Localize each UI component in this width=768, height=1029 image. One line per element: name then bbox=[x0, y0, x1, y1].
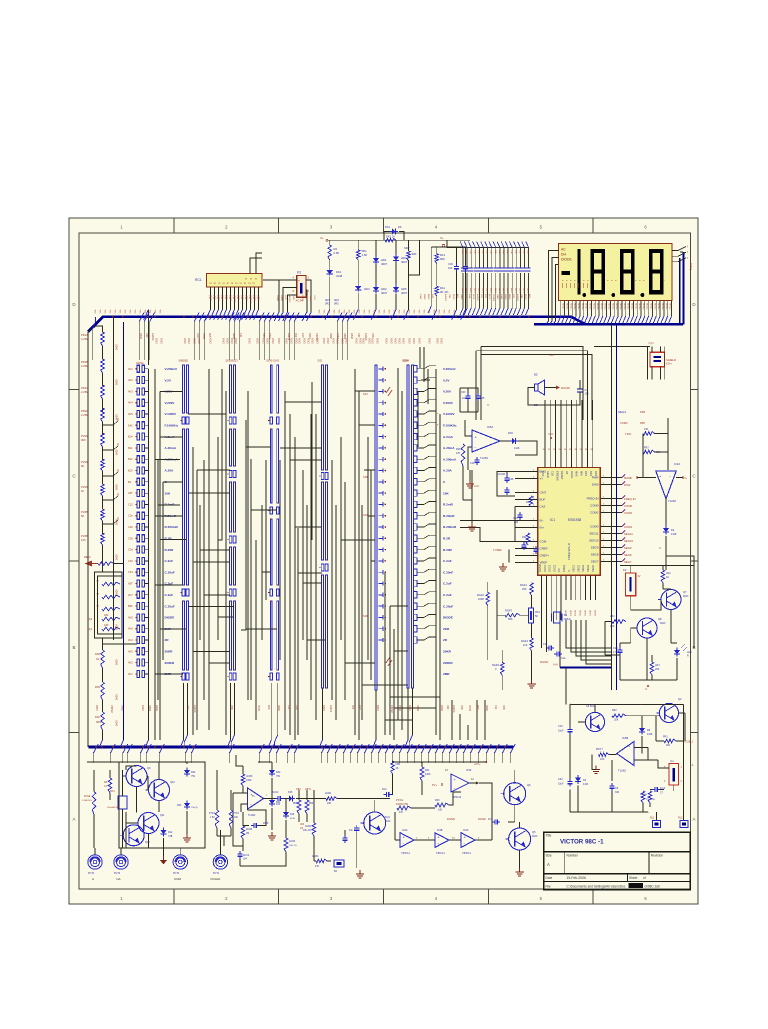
capacitor C7 bbox=[577, 380, 583, 400]
svg-text:S13: S13 bbox=[363, 513, 368, 517]
svg-text:0R1: 0R1 bbox=[325, 303, 330, 306]
label V- q8 bbox=[645, 685, 649, 691]
wire V+ rail bbox=[328, 239, 443, 241]
svg-text:V.20V: V.20V bbox=[443, 390, 452, 394]
svg-text:5A2V: 5A2V bbox=[116, 624, 119, 630]
svg-text:Size: Size bbox=[546, 854, 552, 858]
label S4B5A rows bbox=[128, 367, 133, 676]
wire R12-R11 bbox=[436, 263, 438, 286]
wire d16 drop bbox=[285, 799, 287, 839]
diode D4 bbox=[663, 526, 677, 537]
resistor R2x bbox=[456, 444, 465, 466]
wire nest spk bbox=[528, 388, 580, 406]
svg-text:104(X2.?M): 104(X2.?M) bbox=[396, 804, 408, 806]
svg-text:PR3 ?: PR3 ? bbox=[596, 748, 604, 751]
svg-text:RGF2: RGF2 bbox=[477, 593, 484, 597]
svg-text:SEG1: SEG1 bbox=[572, 565, 576, 572]
svg-text:C32: C32 bbox=[128, 525, 133, 529]
label Vplus ic bbox=[548, 432, 553, 439]
svg-text:MIN: MIN bbox=[579, 471, 583, 476]
svg-text:(3)2: (3)2 bbox=[88, 618, 93, 621]
resistor 5R1 bbox=[356, 250, 360, 260]
svg-text:B1: B1 bbox=[128, 480, 132, 484]
svg-text:SEG3: SEG3 bbox=[581, 565, 585, 572]
svg-text:R2b: R2b bbox=[456, 448, 461, 451]
wire LCD left connections bbox=[546, 251, 559, 325]
svg-text:PV-: PV- bbox=[557, 568, 561, 572]
capacitor CB1 bbox=[342, 830, 347, 843]
svg-text:C52M2: C52M2 bbox=[492, 294, 494, 302]
svg-text:C03: C03 bbox=[461, 391, 466, 394]
resistor 54R5A bbox=[640, 791, 647, 803]
wire nest3 bbox=[481, 355, 592, 421]
svg-text:AV3: AV3 bbox=[128, 389, 133, 393]
label comb nets above bbox=[419, 294, 531, 302]
wire S02 bottom bbox=[319, 688, 322, 747]
wire k2 top bbox=[631, 566, 663, 573]
svg-text:RGF3: RGF3 bbox=[505, 609, 512, 613]
svg-text:Revision: Revision bbox=[651, 854, 663, 858]
svg-text:VREF: VREF bbox=[540, 561, 548, 565]
resistor R08 bbox=[95, 650, 104, 668]
wire jack feeds bbox=[95, 830, 220, 855]
label PCT2 bbox=[173, 872, 182, 881]
svg-text:IC4F: IC4F bbox=[466, 769, 472, 772]
wire left rail bbox=[87, 332, 89, 747]
label V+ mid bbox=[549, 353, 554, 357]
svg-text:C1b: C1b bbox=[470, 462, 475, 465]
svg-text:+PV+: +PV+ bbox=[474, 762, 481, 766]
label PR6 bbox=[640, 410, 646, 414]
svg-text:r (4) r: r (4) r bbox=[648, 342, 654, 345]
resistor ACR4 bbox=[312, 855, 327, 868]
label S4B5A bbox=[136, 361, 144, 365]
label IC1 right pins bbox=[587, 476, 599, 564]
svg-text:Q11: Q11 bbox=[160, 814, 165, 817]
svg-text:FREQ: FREQ bbox=[562, 565, 566, 572]
svg-text:D5B3: D5B3 bbox=[504, 294, 506, 300]
svg-text:C52M2: C52M2 bbox=[390, 705, 393, 713]
resistor LR3 bbox=[650, 662, 660, 675]
junction left chain dots bbox=[102, 331, 104, 534]
svg-text:SEG1c: SEG1c bbox=[623, 303, 625, 310]
svg-text:AV2: AV2 bbox=[128, 378, 133, 382]
svg-text:C.20uF: C.20uF bbox=[443, 604, 453, 608]
svg-text:D5B3: D5B3 bbox=[148, 705, 151, 712]
svg-text:10K-1%: 10K-1% bbox=[303, 830, 311, 832]
svg-text:4148: 4148 bbox=[336, 274, 343, 278]
resistor R12 bbox=[435, 254, 439, 264]
svg-text:104: 104 bbox=[585, 393, 590, 396]
label Q8 bbox=[658, 617, 666, 625]
svg-text:3K: 3K bbox=[396, 767, 399, 770]
svg-text:DIN2: DIN2 bbox=[624, 483, 631, 487]
svg-text:FREQ: FREQ bbox=[689, 263, 693, 270]
label F100 dot bbox=[437, 412, 439, 427]
svg-text:R: R bbox=[687, 655, 689, 658]
svg-text:A2b1: A2b1 bbox=[518, 288, 521, 294]
resistor PR1B bbox=[101, 359, 105, 373]
svg-text:DGND: DGND bbox=[540, 660, 548, 664]
label PVR4 bbox=[81, 485, 89, 493]
svg-text:RL1: RL1 bbox=[650, 817, 655, 820]
svg-text:PCT4: PCT4 bbox=[88, 872, 95, 875]
svg-text:COM0: COM0 bbox=[620, 421, 628, 425]
transistor Q6 bbox=[501, 783, 526, 805]
op-amp IC5A bbox=[472, 430, 500, 452]
jack PCT4 bbox=[88, 855, 102, 869]
svg-text:SEG11: SEG11 bbox=[624, 532, 633, 536]
svg-text:4148: 4148 bbox=[671, 533, 677, 536]
wire 5R1-D9 bbox=[357, 260, 359, 286]
crystal B1 bbox=[552, 612, 563, 623]
capacitor CA1 bbox=[349, 825, 359, 833]
label PR1D bbox=[81, 409, 89, 417]
LCD digit 8 tens bbox=[620, 249, 635, 294]
svg-text:FR5: FR5 bbox=[396, 763, 401, 766]
svg-text:Y5b(1): Y5b(1) bbox=[191, 807, 198, 809]
svg-text:S02: S02 bbox=[318, 359, 323, 363]
label S16 bbox=[363, 614, 368, 618]
svg-text:SEG11: SEG11 bbox=[589, 532, 598, 536]
svg-text:PVR4: PVR4 bbox=[81, 485, 89, 489]
svg-text:CCOM: CCOM bbox=[497, 472, 505, 476]
svg-text:T.VREF: T.VREF bbox=[493, 548, 502, 552]
svg-text:2MR: 2MR bbox=[443, 672, 450, 676]
power ground D0 bbox=[183, 811, 191, 842]
wire IC1 right pins bbox=[600, 476, 622, 562]
svg-text:PC22: PC22 bbox=[209, 296, 211, 302]
svg-text:A5V2: A5V2 bbox=[428, 338, 431, 344]
svg-text:A13V2: A13V2 bbox=[476, 294, 479, 301]
svg-text:C32: C32 bbox=[128, 559, 133, 563]
svg-text:220K: 220K bbox=[478, 597, 484, 601]
switch S4B5A contacts bbox=[135, 365, 144, 677]
svg-text:COM3: COM3 bbox=[590, 525, 599, 529]
svg-text:10uF: 10uF bbox=[558, 783, 564, 786]
svg-text:A2b1: A2b1 bbox=[477, 288, 480, 294]
component K2 bbox=[626, 573, 636, 596]
wire k1 bottom bbox=[570, 705, 683, 821]
svg-text:A5V2: A5V2 bbox=[183, 338, 186, 344]
svg-text:20KR: 20KR bbox=[443, 650, 452, 654]
svg-text:A5V2: A5V2 bbox=[322, 338, 325, 344]
svg-text:m: m bbox=[253, 282, 255, 285]
svg-text:0V2: 0V2 bbox=[351, 705, 354, 710]
label BZ top bbox=[534, 373, 538, 377]
svg-text:V.200V: V.200V bbox=[165, 401, 176, 405]
svg-text:R51: R51 bbox=[293, 803, 298, 805]
svg-text:A5V2: A5V2 bbox=[332, 338, 335, 344]
svg-text:RGF5: RGF5 bbox=[492, 663, 499, 667]
op-amp IC3B bbox=[617, 742, 634, 766]
svg-text:SEG1c: SEG1c bbox=[600, 303, 602, 310]
svg-text:SEG1c: SEG1c bbox=[577, 303, 579, 310]
svg-text:2KR: 2KR bbox=[443, 627, 450, 631]
capacitor C05 bbox=[475, 393, 485, 401]
svg-text:V2B: V2B bbox=[520, 294, 522, 299]
svg-text:AV5: AV5 bbox=[128, 412, 133, 416]
wire chain taps bbox=[103, 417, 121, 524]
svg-text:C10: C10 bbox=[558, 725, 563, 728]
wire caps to bus bbox=[452, 272, 466, 320]
svg-text:5A2V: 5A2V bbox=[116, 720, 119, 726]
label shield top bbox=[648, 342, 654, 345]
LCD decimal point 3 bbox=[641, 293, 645, 297]
transistor Q12 bbox=[120, 825, 144, 846]
label function column 1 bbox=[165, 367, 179, 676]
svg-text:11K: 11K bbox=[523, 643, 528, 647]
wire chain to bank1 bbox=[103, 643, 137, 645]
wire display bus bbox=[534, 323, 683, 326]
power ground IC5A bbox=[468, 523, 476, 531]
wire IC1 left pins bbox=[515, 470, 538, 563]
svg-text:DGND: DGND bbox=[447, 817, 455, 821]
svg-text:LR3: LR3 bbox=[655, 664, 660, 667]
LCD annunciator marks bbox=[562, 283, 587, 288]
svg-text:A5T2: A5T2 bbox=[488, 294, 491, 300]
resistor PVR5 bbox=[101, 509, 105, 521]
wire bundle down bbox=[542, 620, 567, 705]
svg-text:C3d: C3d bbox=[128, 548, 133, 552]
svg-text:4.7uF: 4.7uF bbox=[613, 651, 620, 654]
svg-text:COM0: COM0 bbox=[590, 504, 599, 508]
wire HD1-HD2 bbox=[375, 264, 377, 287]
label IC1 right nets bbox=[622, 475, 636, 565]
svg-text:R.20mR: R.20mR bbox=[443, 514, 455, 518]
LCD label DH bbox=[561, 253, 566, 257]
resistor R62 bbox=[612, 709, 626, 722]
svg-text:IC3B: IC3B bbox=[622, 736, 628, 740]
svg-text:m: m bbox=[244, 282, 246, 285]
diode D20 bbox=[508, 431, 520, 450]
svg-text:A5V2: A5V2 bbox=[376, 338, 379, 344]
svg-text:D4: D4 bbox=[671, 528, 675, 532]
wire HD1 top bbox=[375, 240, 377, 258]
svg-text:R32: R32 bbox=[446, 705, 449, 710]
svg-text:S18: S18 bbox=[363, 475, 368, 479]
svg-text:4148: 4148 bbox=[647, 733, 653, 736]
svg-text:A5V2: A5V2 bbox=[193, 338, 196, 344]
label C7 bbox=[585, 389, 590, 396]
power ground D01 bbox=[268, 808, 276, 840]
svg-text:A5V2: A5V2 bbox=[277, 338, 280, 344]
svg-text:SEG1c: SEG1c bbox=[653, 303, 655, 310]
wire left rail V- bbox=[120, 322, 123, 747]
svg-text:SEG1c: SEG1c bbox=[596, 303, 598, 310]
svg-text:5K: 5K bbox=[535, 615, 538, 618]
svg-text:mA: mA bbox=[116, 877, 121, 881]
svg-text:SEG1c: SEG1c bbox=[569, 303, 571, 310]
capacitor array C04-C20 bbox=[460, 248, 531, 316]
wire SR2 to bus bbox=[404, 275, 409, 320]
label R12 bbox=[440, 253, 446, 261]
svg-text:V2B: V2B bbox=[230, 705, 233, 710]
diode LED1 bbox=[674, 644, 687, 657]
wire IC1 bottom pins bbox=[542, 575, 596, 600]
svg-text:EB32: EB32 bbox=[508, 294, 510, 300]
wire chain segment bbox=[102, 422, 104, 435]
svg-text:A10D3: A10D3 bbox=[452, 705, 455, 713]
svg-text:200mA/250V: 200mA/250V bbox=[107, 806, 120, 809]
wire DS1 leads bbox=[384, 232, 404, 241]
svg-text:RC1: RC1 bbox=[195, 278, 202, 282]
svg-text:m: m bbox=[255, 278, 257, 281]
svg-text:A5V2: A5V2 bbox=[362, 338, 365, 344]
svg-text:A: A bbox=[692, 816, 695, 821]
svg-text:SEG1c: SEG1c bbox=[650, 303, 652, 310]
svg-text:1.5K: 1.5K bbox=[362, 253, 368, 257]
wire HD3-HD5 bbox=[395, 262, 397, 287]
label V+ ic2a bbox=[682, 477, 688, 481]
svg-text:R.2mR: R.2mR bbox=[165, 503, 176, 507]
svg-text:SEG1c: SEG1c bbox=[604, 303, 606, 310]
svg-text:PCT3: PCT3 bbox=[114, 872, 121, 875]
svg-text:100K: 100K bbox=[246, 779, 252, 782]
svg-text:A5V2: A5V2 bbox=[336, 338, 339, 344]
svg-text:SEG7: SEG7 bbox=[591, 560, 599, 564]
svg-text:A2b1: A2b1 bbox=[527, 288, 530, 294]
svg-text:200KR: 200KR bbox=[165, 661, 175, 665]
svg-text:PR1D: PR1D bbox=[81, 409, 88, 413]
wire ic2a out bbox=[665, 499, 667, 526]
label V+ top bbox=[320, 236, 328, 241]
component K1 bbox=[669, 759, 679, 785]
label V+ ic5a bbox=[474, 485, 479, 488]
svg-text:A5V2: A5V2 bbox=[295, 338, 298, 344]
label PVR2 bbox=[81, 434, 89, 442]
label LED1 bbox=[687, 651, 692, 658]
svg-text:V.1000V: V.1000V bbox=[165, 412, 178, 416]
label HD3 bbox=[401, 256, 408, 264]
svg-text:V9B2: V9B2 bbox=[253, 296, 255, 302]
label V- ic2a bbox=[630, 477, 638, 481]
wire S4B5A stubs bbox=[144, 369, 148, 674]
svg-text:C20: C20 bbox=[613, 647, 618, 650]
svg-text:A5V2: A5V2 bbox=[285, 338, 288, 344]
svg-text:9.1B: 9.1B bbox=[583, 783, 588, 786]
wire inverter chain bbox=[395, 806, 492, 840]
svg-text:V+: V+ bbox=[320, 236, 324, 240]
op-amp IC4A bbox=[400, 829, 414, 855]
resistor SR2 bbox=[407, 251, 411, 261]
diode HD5 bbox=[393, 285, 399, 294]
LCD decimal point 1 bbox=[582, 293, 586, 297]
wire chain segment bbox=[102, 496, 104, 509]
svg-text:C.20nF: C.20nF bbox=[165, 570, 175, 574]
svg-text:PV+: PV+ bbox=[432, 783, 437, 787]
capacitor C03 bbox=[461, 391, 471, 401]
svg-text:OSC: OSC bbox=[541, 471, 545, 477]
label RC1 pin nets bbox=[208, 295, 258, 300]
label Vp2 bbox=[553, 664, 558, 667]
wire q cluster bbox=[87, 762, 205, 848]
wire bottom bus bbox=[89, 746, 514, 749]
wire ic2a to q7 bbox=[666, 540, 694, 566]
wire IC5A out bbox=[500, 441, 537, 455]
label V- d4 bbox=[659, 546, 662, 550]
label DS1 bbox=[385, 225, 402, 229]
svg-text:VR1: VR1 bbox=[535, 611, 540, 614]
resistor RGF1 bbox=[520, 583, 533, 596]
svg-text:S6B2: S6B2 bbox=[217, 296, 219, 302]
svg-text:PWR: PWR bbox=[592, 476, 599, 480]
diode HD1 bbox=[373, 256, 379, 265]
label FREQ right of LCD bbox=[689, 263, 693, 270]
svg-text:A2b1: A2b1 bbox=[465, 288, 468, 294]
svg-text:A5V2: A5V2 bbox=[303, 338, 306, 344]
svg-text:EB32: EB32 bbox=[155, 705, 158, 712]
wire black riser 612 bbox=[611, 324, 613, 690]
capacitor CCOM bbox=[497, 472, 514, 483]
svg-text:A2b1: A2b1 bbox=[461, 288, 464, 294]
svg-text:SEG4: SEG4 bbox=[574, 610, 576, 617]
svg-text:S054: S054 bbox=[402, 359, 409, 363]
svg-text:Q2: Q2 bbox=[678, 697, 682, 701]
svg-text:DIODE: DIODE bbox=[443, 616, 453, 620]
ic IC1 body bbox=[538, 468, 601, 576]
svg-text:D03: D03 bbox=[177, 804, 182, 807]
wire IC bottom feeds bbox=[542, 600, 562, 620]
svg-text:A5V2: A5V2 bbox=[226, 338, 229, 344]
svg-text:Q12: Q12 bbox=[145, 841, 150, 844]
wire chain segment bbox=[102, 346, 104, 359]
svg-text:ERENW: ERENW bbox=[555, 471, 559, 481]
transistor FQ1 bbox=[361, 812, 386, 834]
label SR4 bbox=[334, 299, 339, 306]
svg-text:A5V2: A5V2 bbox=[311, 338, 314, 344]
wire chain segment bbox=[102, 373, 104, 386]
wire SEG bundle bbox=[566, 620, 612, 664]
LCD digit 8 hundreds bbox=[591, 249, 606, 294]
svg-text:10K-1%: 10K-1% bbox=[289, 845, 297, 847]
svg-text:SHIELD: SHIELD bbox=[666, 358, 676, 362]
svg-text:FC2: FC2 bbox=[382, 788, 387, 791]
svg-text:A5V2: A5V2 bbox=[402, 338, 405, 344]
svg-text:ACR0: ACR0 bbox=[289, 840, 296, 843]
svg-text:S6B2: S6B2 bbox=[485, 705, 488, 712]
svg-text:LR2: LR2 bbox=[666, 572, 671, 575]
resistor R64 bbox=[643, 428, 655, 435]
svg-text:K1: K1 bbox=[671, 759, 675, 763]
svg-text:LB: LB bbox=[565, 471, 569, 474]
svg-text:A.20A: A.20A bbox=[165, 469, 175, 473]
svg-text:+5.5EL1: +5.5EL1 bbox=[684, 741, 694, 744]
svg-text:DGND: DGND bbox=[561, 386, 571, 390]
label S14 bbox=[363, 392, 368, 396]
label PVR3 bbox=[81, 460, 89, 468]
transistor Q3 bbox=[582, 712, 604, 731]
svg-text:R52: R52 bbox=[309, 803, 314, 805]
svg-text:DP2: DP2 bbox=[589, 471, 593, 477]
svg-text:Y5b: Y5b bbox=[191, 776, 196, 778]
label SR3 bbox=[325, 299, 330, 306]
svg-text:20K: 20K bbox=[522, 587, 527, 591]
power REF1 arrow bbox=[84, 555, 98, 567]
wire K3 right leads bbox=[302, 280, 311, 321]
wire bottom bus top stubs bbox=[0, 0, 1, 1]
label PVR6 bbox=[81, 534, 89, 542]
label Q2r bbox=[678, 697, 682, 701]
capacitor ACC2 bbox=[272, 791, 283, 806]
svg-text:51V3: 51V3 bbox=[229, 296, 231, 302]
svg-text:20K: 20K bbox=[614, 719, 619, 722]
svg-text:1K: 1K bbox=[81, 489, 84, 493]
svg-text:V9B2: V9B2 bbox=[398, 705, 401, 712]
svg-text:A5V2: A5V2 bbox=[222, 338, 225, 344]
resistor FR5 bbox=[391, 761, 401, 774]
svg-text:5A2V: 5A2V bbox=[116, 554, 119, 560]
